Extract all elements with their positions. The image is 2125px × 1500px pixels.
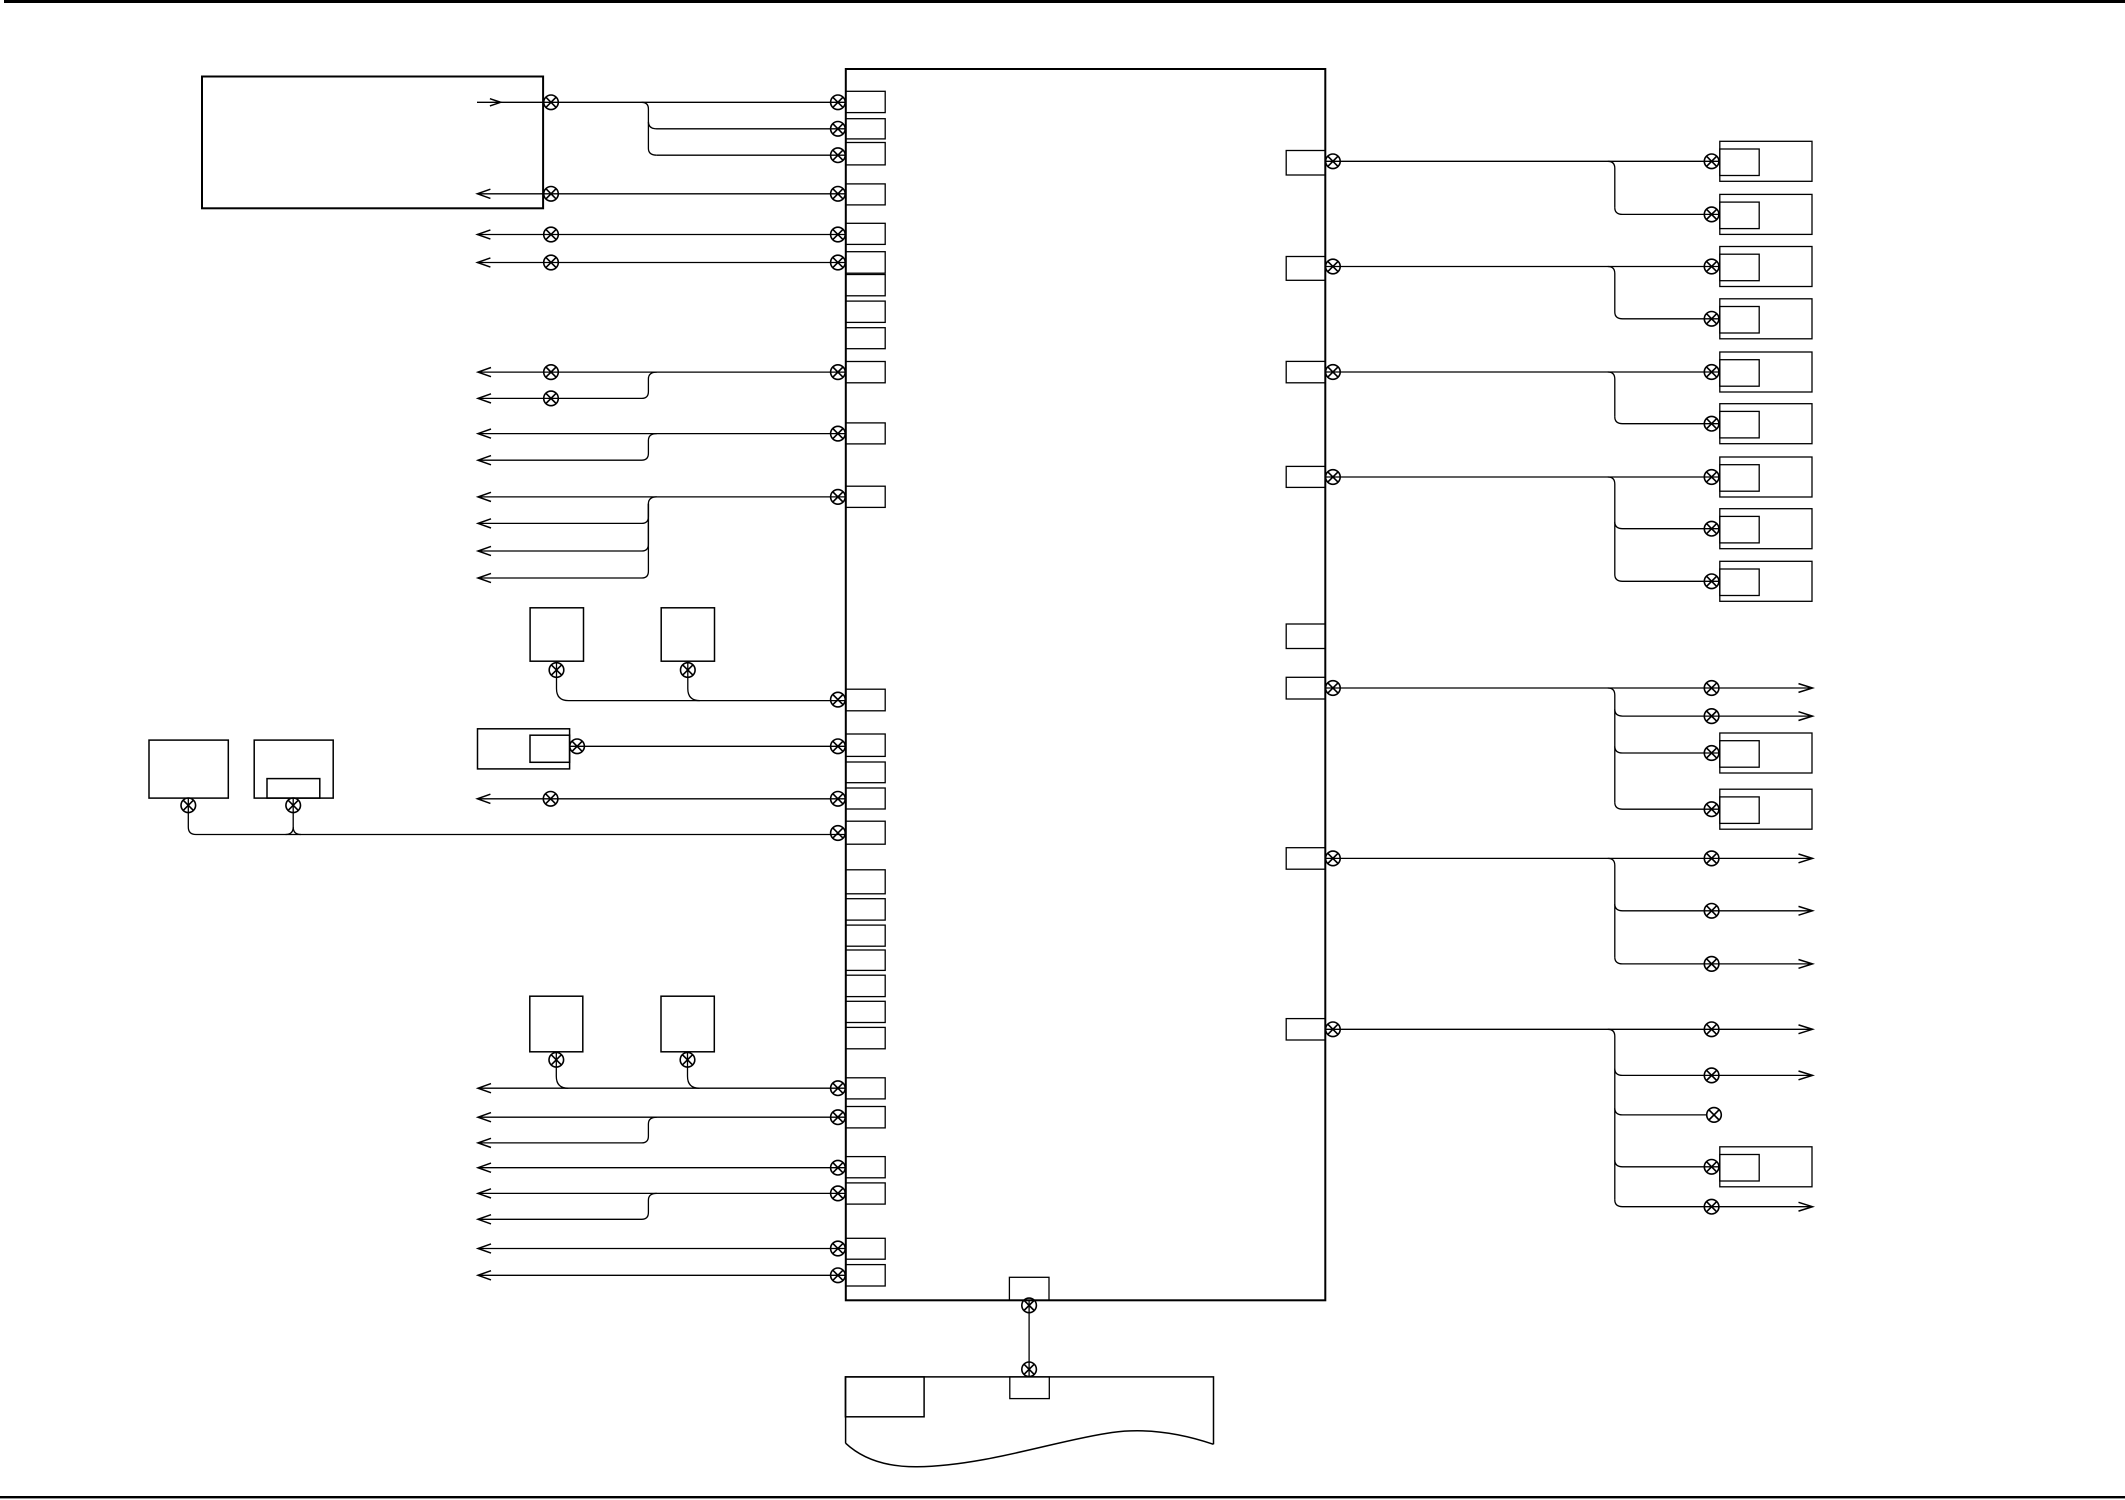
PCM left pin box L1 <box>846 91 885 112</box>
splice below box G2 <box>286 798 301 813</box>
wire W21a (paired lead merging into W21) <box>478 1193 657 1219</box>
splice below sensor K3 <box>549 1053 564 1068</box>
splice S-X6b on wire X6b <box>1704 904 1719 919</box>
splice at PCM left pin L23 <box>831 1268 846 1283</box>
wire W13 (sensors K1/K2 to PCM pin L13) <box>557 661 846 700</box>
arrow on wire W19 <box>478 1113 491 1122</box>
wire X3a drop <box>1608 372 1615 417</box>
module box upper-left (data link connector) <box>202 77 543 209</box>
connector C12 outer box <box>1720 1147 1812 1187</box>
wire W10a (paired lead merging into W10) <box>478 372 657 398</box>
wire W23 (PCM pin L23 leftward) <box>478 1274 846 1276</box>
ground module box G2 <box>254 740 333 798</box>
splice at PCM left pin L6 <box>831 255 846 270</box>
battery box inner cell <box>530 735 570 762</box>
splice at PCM left pin L2 <box>831 122 846 137</box>
arrow on wire X6 <box>1799 854 1813 863</box>
sensor box K3 <box>530 996 583 1052</box>
arrow on wire X5 <box>1799 684 1813 693</box>
wire W17a (G2 drop joining W17, right fillet) <box>293 798 301 834</box>
sensor box K4 <box>661 996 714 1052</box>
wire W2 (branch to PCM pin L3) <box>657 154 846 156</box>
splice at PCM left pin L21 <box>831 1186 846 1201</box>
notch inside box G2 <box>267 779 320 799</box>
wire W17 (boxes G1/G2 to PCM pin L17) <box>188 798 846 834</box>
wire X2a drop <box>1608 267 1615 313</box>
splice at PCM right pin R4 <box>1326 470 1341 485</box>
splice S10a on wire W10a <box>544 391 559 406</box>
PCM left pin box L15 <box>846 762 885 783</box>
wire X1b to connector C2 <box>1615 208 1720 215</box>
splice below PCM pin B1 <box>1022 1298 1037 1313</box>
PCM bottom pin box B1 <box>1009 1277 1049 1300</box>
arrow on wire W10 <box>478 368 491 377</box>
splice at connector C2 <box>1704 207 1719 222</box>
arrow on wire W6 <box>477 258 490 267</box>
PCM left pin box L9 <box>846 328 885 349</box>
PCM spare pin box SP1 <box>846 870 885 894</box>
top title bar <box>4 0 2125 3</box>
PCM left pin box L2 <box>846 119 885 139</box>
splice at PCM left pin L14 <box>831 739 846 754</box>
connector C8 terminal cavity <box>1720 516 1759 543</box>
splice block / harness box <box>846 1377 1214 1467</box>
PCM right pin box R1 <box>1286 151 1325 176</box>
splice S5 on wire W5 <box>544 227 559 242</box>
PCM left pin box L19 <box>846 1107 885 1128</box>
arrow on wire W18 <box>478 1084 491 1093</box>
splice at connector C9 <box>1704 574 1719 589</box>
PCM spare pin box SP2 <box>846 899 885 920</box>
splice S-X5b on wire X5b <box>1704 709 1719 724</box>
splice at connector C4 <box>1704 312 1719 327</box>
terminating splice on wire X7c <box>1707 1108 1722 1123</box>
connector C4 terminal cavity <box>1720 307 1759 334</box>
wire W16 (PCM pin L16 leftward) <box>477 798 845 800</box>
wire W5 (PCM pin L5 leftward) <box>477 234 845 236</box>
wire W12b merging into W12 <box>478 504 648 551</box>
connector C7 outer box <box>1720 457 1812 497</box>
PCM left pin box L23 <box>846 1265 885 1286</box>
connector C9 outer box <box>1720 561 1812 601</box>
splice below box G1 <box>181 798 196 813</box>
splice at PCM right pin R8 <box>1326 1022 1341 1037</box>
connector C11 outer box <box>1720 789 1812 829</box>
splice at PCM left pin L22 <box>831 1241 846 1256</box>
connector C1 terminal cavity <box>1720 149 1759 176</box>
wire X6 (PCM pin R7 rightward) <box>1325 857 1811 859</box>
bottom rule <box>0 1496 2125 1498</box>
connector C3 outer box <box>1720 247 1812 287</box>
wire W22 (PCM pin L22 leftward) <box>478 1248 846 1250</box>
splice at connector C5 <box>1704 365 1719 380</box>
wire X1 (PCM pin R1 to connector C1) <box>1325 160 1720 162</box>
connector C7 terminal cavity <box>1720 465 1759 492</box>
splice at connector C7 <box>1704 470 1719 485</box>
wire W6 (PCM pin L6 leftward) <box>477 262 845 264</box>
arrow on wire W12 <box>478 492 491 501</box>
PCM left pin box L11 <box>846 423 885 444</box>
splice below sensor K1 <box>549 663 564 678</box>
arrow on wire X7 <box>1799 1025 1813 1034</box>
PCM left pin box L5 <box>846 223 885 244</box>
PCM main box <box>846 69 1326 1300</box>
arrow on wire W12b <box>478 546 491 555</box>
splice above splice-block <box>1022 1362 1037 1377</box>
wire branch W1a drop to rows L2/L3 <box>642 102 657 155</box>
PCM left pin box L22 <box>846 1238 885 1259</box>
connector C5 outer box <box>1720 352 1812 392</box>
wire X7a drop <box>1608 1029 1615 1200</box>
PCM spare pin box SP4 <box>846 950 885 970</box>
wire X6c lead <box>1615 957 1812 964</box>
PCM left pin box L8 <box>846 301 885 322</box>
splice at PCM right pin R6 <box>1326 681 1341 696</box>
PCM right pin box R8 <box>1286 1019 1325 1040</box>
wire W19a (paired lead merging into W19) <box>478 1117 657 1143</box>
wire X1a drop from W(X1) <box>1608 161 1615 207</box>
splice at PCM right pin R7 <box>1326 851 1341 866</box>
wire W13a (K2 drop into W13) <box>688 661 700 700</box>
wire W11 (PCM pin L11 leftward) <box>478 433 846 435</box>
splice at PCM left pin L5 <box>831 227 846 242</box>
PCM right pin box R3 <box>1286 361 1325 382</box>
splice at PCM left pin L10 <box>831 365 846 380</box>
wire X4b to connector C8 <box>1615 522 1720 529</box>
wire W18 (PCM pin L18 leftward) <box>478 1087 846 1089</box>
connector C10 terminal cavity <box>1720 741 1759 768</box>
wire W4 (PCM pin L4 to module) <box>477 193 845 195</box>
splice S10 on wire W10 <box>544 365 559 380</box>
ground module box G1 <box>149 740 228 798</box>
splice at PCM left pin L16 <box>831 792 846 807</box>
wire W21 (PCM pin L21 leftward) <box>478 1192 846 1194</box>
connector C9 terminal cavity <box>1720 569 1759 596</box>
arrow on wire W10a <box>478 394 491 403</box>
arrow on wire W23 <box>478 1271 491 1280</box>
connector C10 outer box <box>1720 733 1812 773</box>
connector C6 outer box <box>1720 404 1812 444</box>
arrow on wire W12c <box>478 573 491 582</box>
arrow on wire W11a <box>478 456 491 465</box>
splice at PCM left pin L19 <box>831 1110 846 1125</box>
splice S-X5 on wire X5 <box>1704 681 1719 696</box>
connector C3 terminal cavity <box>1720 254 1759 281</box>
PCM left pin box L7 <box>846 275 885 296</box>
arrow on wire W20 <box>478 1163 491 1172</box>
wire X4a drop <box>1608 477 1615 575</box>
PCM left pin box L3 <box>846 143 885 165</box>
splice at PCM right pin R3 <box>1326 365 1341 380</box>
splice at connector C12 <box>1704 1160 1719 1175</box>
arrow on wire W22 <box>478 1244 491 1253</box>
connector C2 terminal cavity <box>1720 202 1759 229</box>
arrow on wire X6c <box>1799 960 1813 969</box>
splice S4 on W4 at module edge <box>544 187 559 202</box>
PCM right pin box R4 <box>1286 466 1325 487</box>
connector C6 terminal cavity <box>1720 411 1759 438</box>
connector C1 outer box <box>1720 141 1812 181</box>
PCM left pin box L12 <box>846 486 885 507</box>
splice at PCM left pin L1 <box>831 95 846 110</box>
wire X7c stub lead <box>1615 1108 1707 1115</box>
sensor box K2 <box>661 608 714 661</box>
wire X5c to connector C10 <box>1615 746 1720 753</box>
wire X5d to connector C11 <box>1615 802 1720 809</box>
PCM spare pin box SP6 <box>846 1001 885 1022</box>
arrow on wire X6b <box>1799 906 1813 915</box>
battery box outer <box>478 729 570 769</box>
arrow out of module on W4 <box>477 189 490 198</box>
PCM left pin box L18 <box>846 1078 885 1099</box>
arrow on wire X7e <box>1799 1202 1813 1211</box>
wire X6b lead <box>1615 904 1812 911</box>
wire X7b lead <box>1615 1069 1812 1076</box>
splice at PCM left pin L12 <box>831 490 846 505</box>
splice at PCM left pin L13 <box>831 692 846 707</box>
splice at connector C3 <box>1704 259 1719 274</box>
splice S-X7e on wire X7e <box>1704 1199 1719 1214</box>
splice at PCM left pin L18 <box>831 1081 846 1096</box>
connector C4 outer box <box>1720 299 1812 339</box>
wire W11a (paired lead merging into W11) <box>478 434 657 461</box>
PCM left pin box L4 <box>846 184 885 205</box>
wire W18b (K4 drop into W18) <box>688 1052 700 1088</box>
splice at PCM right pin R2 <box>1326 259 1341 274</box>
wire W20 (PCM pin L20 leftward) <box>478 1167 846 1169</box>
PCM left pin box L21 <box>846 1183 885 1204</box>
arrow on wire W16 <box>477 794 490 803</box>
PCM right pin box R6 <box>1286 677 1325 699</box>
wire W12 (PCM pin L12 leftward) <box>478 496 846 498</box>
splice at battery terminal <box>570 739 585 754</box>
wire W1 (module to PCM pin L1) <box>477 101 846 103</box>
arrow on wire W19a <box>478 1138 491 1147</box>
splice at PCM left pin L17 <box>831 826 846 841</box>
splice S-X7b on wire X7b <box>1704 1068 1719 1083</box>
splice at PCM right pin R1 <box>1326 154 1341 169</box>
PCM left pin box L17 <box>846 821 885 844</box>
splice at connector C6 <box>1704 416 1719 431</box>
wire X7 (PCM pin R8 rightward) <box>1325 1028 1811 1030</box>
splice S6 on wire W6 <box>544 255 559 270</box>
PCM right pin box R5 <box>1286 624 1325 649</box>
splice S-X6 on wire X6 <box>1704 851 1719 866</box>
wire W12c merging into W12 <box>478 504 648 578</box>
wire X6a drop <box>1608 858 1615 957</box>
wire W10 (PCM pin L10 leftward) <box>478 371 846 373</box>
arrow into module on W1 <box>490 99 501 106</box>
wire WB (PCM pin B1 down to splice block) <box>1028 1300 1030 1377</box>
splice at connector C1 <box>1704 154 1719 169</box>
wire W18a (K3 drop into W18) <box>556 1052 568 1088</box>
arrow on wire W12a <box>478 519 491 528</box>
wire X5 (PCM pin R6 rightward) <box>1325 687 1811 689</box>
wire X4 (PCM pin R4 to connector C7) <box>1325 476 1720 478</box>
splice at connector C10 <box>1704 746 1719 761</box>
wire X3 (PCM pin R3 to connector C5) <box>1325 371 1720 373</box>
PCM left pin box L10 <box>846 362 885 383</box>
PCM left pin box L20 <box>846 1157 885 1178</box>
splice S16 on wire W16 <box>543 792 558 807</box>
arrow on wire W21a <box>478 1215 491 1224</box>
splice at connector C8 <box>1704 521 1719 536</box>
wire X7d to connector C12 <box>1615 1160 1720 1167</box>
connector C5 terminal cavity <box>1720 360 1759 387</box>
sensor box K1 <box>530 608 583 661</box>
splice at connector C11 <box>1704 802 1719 817</box>
arrow on wire W11 <box>478 429 491 438</box>
splice at PCM left pin L4 <box>831 187 846 202</box>
wire X3b to connector C6 <box>1615 417 1720 424</box>
connector C2 outer box <box>1720 194 1812 234</box>
arrow on wire W21 <box>478 1189 491 1198</box>
splice at PCM left pin L20 <box>831 1160 846 1175</box>
wire W14 (battery to PCM pin L14) <box>570 745 846 747</box>
wire X2b to connector C4 <box>1615 312 1720 319</box>
connector C8 outer box <box>1720 509 1812 549</box>
wire W17b (G2 drop left fillet) <box>286 827 294 835</box>
wire X2 (PCM pin R2 to connector C3) <box>1325 266 1720 268</box>
wire X4c to connector C9 <box>1615 575 1720 582</box>
splice S1 on W1 at module edge <box>544 95 559 110</box>
harness box top pin box <box>1010 1377 1050 1399</box>
wire W12a merging into W12 <box>478 497 657 524</box>
PCM left pin box L16 <box>846 788 885 809</box>
PCM spare pin box SP7 <box>846 1027 885 1048</box>
splice below sensor K4 <box>680 1053 695 1068</box>
splice at PCM left pin L11 <box>831 426 846 441</box>
PCM right pin box R2 <box>1286 257 1325 281</box>
PCM spare pin box SP3 <box>846 925 885 946</box>
splice below sensor K2 <box>681 663 696 678</box>
connector C12 terminal cavity <box>1720 1155 1759 1182</box>
wire X5b lead <box>1615 709 1812 716</box>
PCM left pin box L13 <box>846 689 885 711</box>
wire X5a drop <box>1608 688 1615 802</box>
arrow on wire X5b <box>1799 712 1813 721</box>
splice S-X6c on wire X6c <box>1704 957 1719 972</box>
PCM right pin box R7 <box>1286 848 1325 870</box>
PCM left pin box L14 <box>846 734 885 756</box>
wire branch W1b to row L2 <box>648 122 845 129</box>
splice S-X7 on wire X7 <box>1704 1022 1719 1037</box>
wire W19 (PCM pin L19 leftward) <box>478 1116 846 1118</box>
wire X7e lead <box>1615 1200 1812 1207</box>
harness box corner cell <box>845 1377 924 1417</box>
PCM left pin box L6 <box>846 252 885 274</box>
PCM spare pin box SP5 <box>846 975 885 996</box>
arrow on wire W5 <box>477 230 490 239</box>
splice at PCM left pin L3 <box>831 148 846 163</box>
arrow on wire X7b <box>1799 1071 1813 1080</box>
connector C11 terminal cavity <box>1720 797 1759 824</box>
